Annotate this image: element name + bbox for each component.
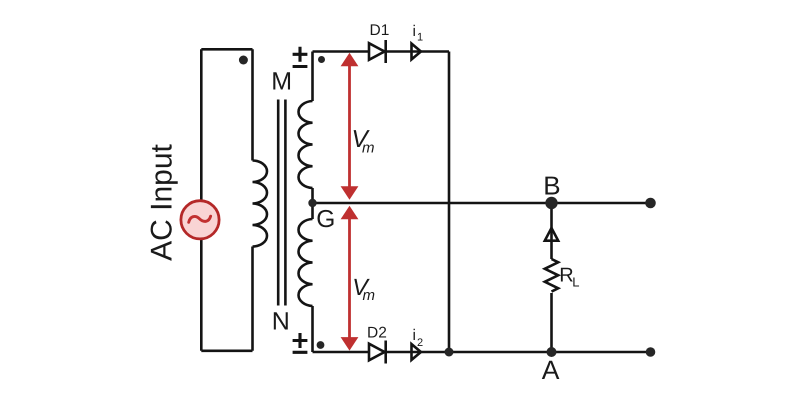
svg-text:1: 1: [417, 32, 423, 44]
svg-text:D2: D2: [367, 325, 387, 342]
svg-text:m: m: [363, 287, 376, 304]
svg-text:B: B: [543, 171, 560, 201]
svg-text:D1: D1: [370, 22, 390, 39]
svg-text:m: m: [362, 140, 375, 157]
svg-text:N: N: [272, 308, 290, 336]
svg-text:A: A: [542, 355, 560, 385]
svg-text:i: i: [413, 327, 416, 344]
svg-text:i: i: [413, 23, 416, 40]
svg-text:M: M: [271, 67, 292, 95]
svg-text:2: 2: [417, 337, 423, 349]
svg-text:L: L: [572, 275, 579, 290]
svg-text:G: G: [316, 206, 335, 233]
svg-text:AC Input: AC Input: [145, 143, 178, 260]
